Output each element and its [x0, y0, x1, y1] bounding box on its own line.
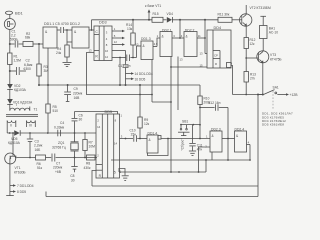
svg-text:DD5 К561ИЕ8: DD5 К561ИЕ8	[262, 123, 284, 127]
wire R2 to DD1.1	[33, 43, 43, 45]
DD2.3 out wire	[222, 138, 235, 140]
svg-text:5: 5	[114, 171, 116, 175]
transformer T1 core	[6, 114, 38, 116]
resistor R11	[218, 17, 232, 22]
svg-text:13к: 13к	[127, 27, 133, 31]
svg-text:13: 13	[135, 42, 139, 46]
svg-text:13: 13	[89, 49, 93, 53]
DD1.4 output wire	[161, 138, 210, 140]
svg-text:11: 11	[198, 34, 201, 38]
svg-text:III: III	[29, 124, 32, 128]
svg-text:12: 12	[114, 40, 118, 44]
supply wire y94	[233, 94, 263, 96]
capacitor C8	[74, 158, 76, 167]
svg-text:15н: 15н	[131, 132, 137, 136]
svg-text:24к: 24к	[56, 51, 62, 55]
svg-text:32768 Гц: 32768 Гц	[52, 146, 66, 150]
resistor R12	[244, 38, 248, 49]
capacitor C2	[9, 70, 11, 72]
svg-text:68к: 68к	[25, 36, 31, 40]
svg-text:R: R	[215, 62, 217, 66]
resistor R2	[23, 42, 33, 47]
diode VD1	[7, 99, 13, 104]
oscillator loop wire	[75, 112, 118, 115]
svg-text:R11 30к: R11 30к	[218, 13, 230, 17]
microphone BM1 terminal	[5, 11, 12, 14]
transistor VT3	[257, 51, 269, 63]
svg-text:12: 12	[105, 55, 109, 59]
resistor R14	[132, 20, 134, 33]
svg-text:16 DD5: 16 DD5	[135, 78, 146, 82]
capacitor C7	[51, 154, 53, 162]
svg-text:16Б: 16Б	[35, 148, 41, 152]
svg-text:+6В: +6В	[55, 170, 62, 174]
svg-text:14 DD1-DD4: 14 DD1-DD4	[135, 72, 153, 76]
svg-text:R8: R8	[86, 161, 90, 165]
capacitor C4	[57, 130, 59, 137]
svg-text:VT2 КТ315БМ: VT2 КТ315БМ	[250, 6, 272, 10]
resistor R3	[38, 44, 40, 64]
gate DD1.2	[72, 27, 89, 48]
svg-text:КД510А: КД510А	[8, 141, 21, 145]
svg-text:C4: C4	[60, 121, 64, 125]
svg-text:430к: 430к	[84, 166, 92, 170]
rectifier output wire	[7, 132, 14, 134]
svg-text:VT1: VT1	[15, 166, 21, 170]
resistor R10	[199, 85, 201, 96]
svg-text:51к: 51к	[37, 166, 43, 170]
DD5 grounded pin	[120, 169, 126, 176]
diode VD4	[167, 17, 172, 23]
svg-text:14: 14	[114, 141, 118, 145]
svg-text:C8: C8	[70, 174, 74, 178]
diode VD2	[7, 84, 13, 89]
wire C5 to DD1.2	[64, 29, 72, 31]
svg-text:13: 13	[200, 52, 204, 56]
svg-text:I: I	[16, 103, 17, 107]
svg-text:КТ630Б: КТ630Б	[14, 170, 26, 174]
svg-text:14: 14	[97, 125, 101, 129]
svg-text:к базе VT1: к базе VT1	[145, 4, 161, 8]
resistor R13	[245, 58, 247, 72]
resistor R7	[84, 133, 86, 140]
svg-text:II: II	[10, 124, 12, 128]
DD1.4 feedback loop	[167, 138, 169, 140]
bottom rail 2	[46, 196, 258, 198]
wire mic to C1	[9, 30, 11, 45]
capacitor C10	[133, 135, 135, 141]
DD2.1 bottom pin wires	[170, 57, 172, 173]
capacitor C1	[14, 41, 16, 48]
capacitor C3	[29, 132, 31, 134]
svg-text:27к: 27к	[250, 77, 256, 81]
svg-text:1,5М: 1,5М	[14, 59, 22, 63]
wire DD1.1 out to C5	[57, 29, 60, 31]
ground below R4	[63, 61, 72, 63]
svg-text:0,33мк: 0,33мк	[54, 125, 65, 129]
capacitor C11 with ground	[192, 125, 194, 143]
resistor R9	[139, 85, 141, 117]
DD2.1 out wire	[172, 37, 184, 39]
svg-text:BD1: BD1	[15, 11, 24, 16]
svg-text:VD5: VD5	[11, 137, 18, 141]
crease line	[272, 91, 274, 109]
svg-text:DD1.1 C5 4700 DD1.2: DD1.1 C5 4700 DD1.2	[44, 22, 80, 26]
capacitor C13	[126, 55, 128, 62]
capacitor C9	[67, 85, 69, 92]
wire DD3 pin to C13	[112, 57, 126, 59]
svg-text:500Б: 500Б	[10, 37, 18, 41]
capacitor C6	[74, 112, 76, 119]
capacitor C5	[60, 27, 62, 33]
feedback bus L2	[119, 171, 206, 173]
wire C1 to R2	[19, 43, 24, 45]
svg-text:10М: 10М	[89, 145, 96, 149]
resistor R15	[152, 17, 163, 22]
svg-text:SA1: SA1	[273, 86, 279, 90]
svg-text:DD3: DD3	[99, 20, 107, 24]
resistor R8	[87, 155, 96, 160]
transformer T1 winding III	[27, 121, 36, 123]
svg-text:12к: 12к	[250, 42, 256, 46]
arrow to VT1 base	[148, 12, 150, 20]
svg-text:12к: 12к	[144, 122, 150, 126]
wire DD1.2 output	[89, 29, 94, 31]
wire C13 to DD1.3 input	[136, 46, 138, 58]
svg-text:7 DD1-DD4: 7 DD1-DD4	[17, 184, 34, 188]
crystal ZQ1	[74, 133, 76, 142]
svg-text:КД103А: КД103А	[14, 88, 27, 92]
svg-text:C12 16н: C12 16н	[208, 101, 221, 105]
diode VD5	[14, 130, 20, 136]
svg-text:VD4: VD4	[167, 12, 174, 16]
svg-text:220мк: 220мк	[73, 91, 83, 95]
wire DD5 pin3 to C10	[120, 138, 134, 140]
svg-text:CP: CP	[214, 54, 218, 58]
svg-text:DD5: DD5	[105, 110, 113, 114]
svg-text:16В: 16В	[74, 96, 81, 100]
svg-text:8 DD5: 8 DD5	[17, 190, 26, 194]
DD4 bottom pin wire	[231, 66, 233, 95]
supply rail y85	[39, 84, 200, 86]
svg-text:30: 30	[79, 118, 83, 122]
resistor R6	[36, 155, 46, 160]
DD2.4 output wire	[247, 144, 251, 146]
svg-text:T1: T1	[34, 108, 38, 112]
transistor VT1	[5, 153, 16, 164]
resistor R4	[66, 30, 68, 42]
DD2.3 bottom pin to L1	[211, 152, 213, 160]
resistor R1	[9, 44, 11, 53]
DD3 output arrows	[112, 30, 122, 32]
transformer T1 primary	[10, 108, 30, 110]
svg-text:47н: 47н	[197, 147, 203, 151]
DD2.3 pin2 wire	[199, 147, 211, 172]
top bus wire	[92, 19, 153, 21]
DD2.2 out wire	[197, 37, 205, 39]
DD2.2 bottom pin wire	[177, 57, 179, 111]
svg-text:"Сброс": "Сброс"	[181, 138, 185, 151]
feedback bus L1	[111, 159, 250, 161]
svg-text:6300: 6300	[24, 67, 32, 71]
DD1.3 out to DD2.1	[153, 46, 157, 48]
svg-text:КТ475Б: КТ475Б	[270, 57, 282, 61]
svg-text:510: 510	[53, 109, 59, 113]
transformer T1 winding II	[7, 121, 16, 123]
svg-text:+12В: +12В	[290, 93, 299, 97]
svg-text:13: 13	[180, 58, 184, 62]
wire DD3 pin to C9	[112, 50, 126, 52]
VT1 emitter rail with power labels	[6, 195, 14, 197]
svg-text:VT3: VT3	[270, 53, 276, 57]
gate DD1.1	[43, 27, 57, 48]
svg-text:30: 30	[71, 179, 75, 183]
svg-text:C9: C9	[74, 87, 78, 91]
svg-text:16: 16	[105, 49, 109, 53]
power pin arrows 14/16	[126, 73, 132, 75]
svg-text:DD4: DD4	[214, 26, 222, 30]
svg-text:АС-10: АС-10	[269, 31, 278, 35]
VT1 collector wire	[16, 157, 35, 159]
svg-text:6,8мк: 6,8мк	[24, 63, 33, 67]
speaker BA1	[260, 15, 266, 17]
svg-text:ZQ1: ZQ1	[58, 141, 65, 145]
resistor R5	[47, 85, 49, 104]
capacitor C9	[125, 51, 127, 65]
svg-text:R15: R15	[153, 12, 159, 16]
microphone BM1 body	[9, 15, 11, 19]
bottom rail 1	[92, 185, 258, 187]
svg-text:SB1: SB1	[182, 120, 188, 124]
DD1.1 bottom pin wire	[47, 48, 49, 85]
wire DD2.3 node to L1	[227, 139, 229, 161]
